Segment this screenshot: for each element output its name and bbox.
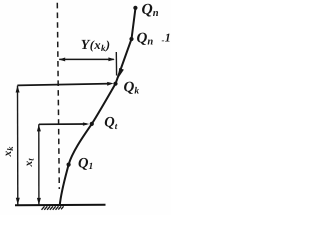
x_t dimension horizontal line — [39, 123, 87, 125]
baseline ground line — [15, 204, 106, 207]
point Q_1 — [67, 163, 71, 167]
svg-text:xk: xk — [2, 146, 15, 158]
Y(x_k) extension tick — [115, 52, 117, 76]
x_k dimension vertical line — [17, 86, 19, 205]
point Q_t — [90, 122, 94, 126]
point Q_n-1 — [129, 37, 133, 41]
svg-text:Qt: Qt — [104, 114, 117, 131]
svg-text:Qn-1: Qn-1 — [137, 31, 171, 48]
ground hatching — [42, 206, 64, 210]
svg-text:Y(xk): Y(xk) — [81, 38, 111, 53]
svg-text:Q1: Q1 — [78, 155, 93, 172]
point Q_k — [113, 82, 117, 86]
svg-text:Qn: Qn — [142, 1, 159, 19]
x_k dimension horizontal line — [17, 84, 110, 86]
x_t dimension vertical line — [38, 124, 40, 205]
arrowhead on line above Q_k — [118, 68, 124, 78]
svg-text:Qk: Qk — [124, 80, 140, 97]
Y(x_k) dimension arrow — [59, 58, 114, 60]
point Q_n — [133, 6, 137, 10]
svg-text:xt: xt — [23, 158, 36, 168]
dashed axis line — [57, 3, 59, 189]
deflection curve — [60, 8, 136, 206]
